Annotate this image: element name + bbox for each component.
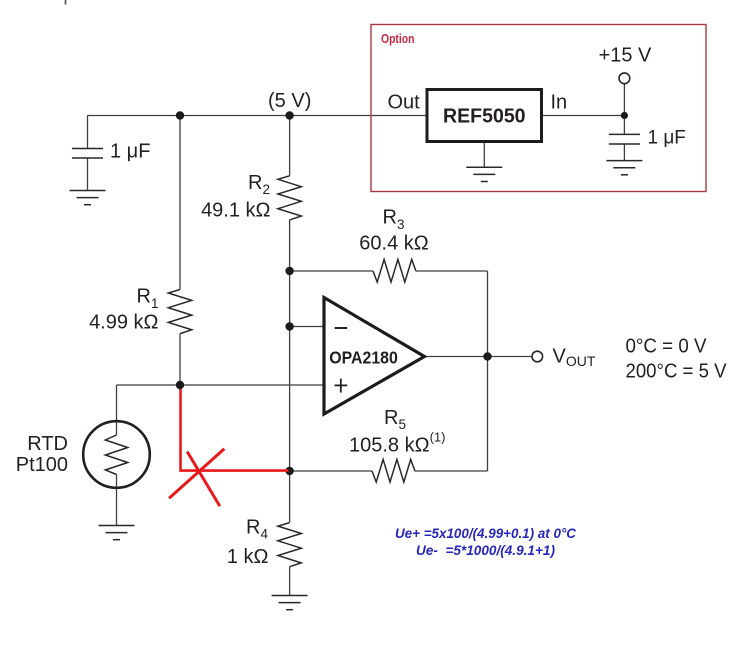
svg-text:Option: Option (381, 31, 415, 46)
svg-text:Ue+ =5x100/(4.99+0.1) at 0°C: Ue+ =5x100/(4.99+0.1) at 0°C (395, 525, 577, 541)
svg-text:105.8 kΩ(1): 105.8 kΩ(1) (349, 429, 445, 456)
svg-text:R5: R5 (384, 407, 406, 432)
svg-text:60.4 kΩ: 60.4 kΩ (359, 233, 428, 255)
svg-text:4.99 kΩ: 4.99 kΩ (89, 312, 158, 334)
svg-text:VOUT: VOUT (553, 346, 596, 370)
svg-text:R3: R3 (383, 207, 405, 232)
svg-text:1 μF: 1 μF (648, 127, 686, 148)
svg-text:R1: R1 (137, 286, 159, 311)
svg-text:Ue- =5*1000/(4.9.1+1): Ue- =5*1000/(4.9.1+1) (416, 542, 555, 558)
svg-text:+15 V: +15 V (599, 45, 652, 67)
svg-text:Out: Out (388, 91, 421, 113)
svg-text:R4: R4 (246, 516, 268, 541)
svg-text:RTD: RTD (27, 433, 68, 455)
svg-text:R2: R2 (248, 172, 270, 197)
svg-text:OPA2180: OPA2180 (329, 348, 398, 368)
svg-text:1 μF: 1 μF (110, 141, 150, 163)
svg-text:(5 V): (5 V) (268, 90, 311, 112)
svg-text:In: In (551, 91, 568, 113)
svg-text:200°C = 5 V: 200°C = 5 V (626, 360, 728, 382)
svg-text:1 kΩ: 1 kΩ (227, 546, 269, 568)
svg-text:Pt100: Pt100 (16, 454, 68, 476)
svg-text:REF5050: REF5050 (443, 106, 526, 128)
svg-text:49.1 kΩ: 49.1 kΩ (201, 200, 270, 222)
svg-text:0°C = 0 V: 0°C = 0 V (626, 336, 708, 358)
